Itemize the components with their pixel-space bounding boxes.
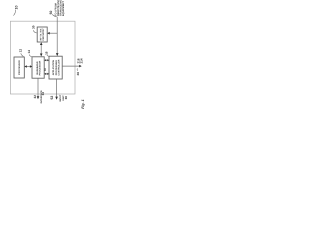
- svg-text:Fig. 1: Fig. 1: [81, 99, 85, 108]
- svg-text:50: 50: [49, 11, 53, 15]
- svg-text:APPLICATION: APPLICATION: [52, 60, 55, 76]
- svg-text:PROCESSOR: PROCESSOR: [39, 60, 42, 75]
- svg-text:32: 32: [33, 95, 37, 99]
- svg-text:PROCESSOR: PROCESSOR: [18, 60, 21, 75]
- svg-text:10: 10: [14, 6, 18, 10]
- svg-text:18: 18: [44, 68, 47, 71]
- svg-text:52: 52: [50, 96, 54, 100]
- svg-text:INTERFACE: INTERFACE: [40, 90, 43, 103]
- svg-text:28: 28: [76, 72, 80, 76]
- svg-text:30: 30: [32, 25, 36, 29]
- svg-text:BASEBAND: BASEBAND: [36, 61, 39, 74]
- svg-text:INPUT: INPUT: [59, 94, 62, 101]
- svg-text:16: 16: [45, 51, 49, 55]
- svg-text:12: 12: [19, 49, 23, 53]
- svg-text:CONTROLLER: CONTROLLER: [58, 59, 61, 75]
- svg-text:14: 14: [27, 50, 31, 54]
- svg-text:214: 214: [79, 58, 83, 63]
- svg-text:CIRCUITRY: CIRCUITRY: [42, 28, 45, 41]
- svg-text:EQUIPMENT: EQUIPMENT: [62, 1, 65, 16]
- svg-text:UNIT: UNIT: [62, 95, 65, 101]
- svg-text:PROCESSING: PROCESSING: [55, 60, 58, 76]
